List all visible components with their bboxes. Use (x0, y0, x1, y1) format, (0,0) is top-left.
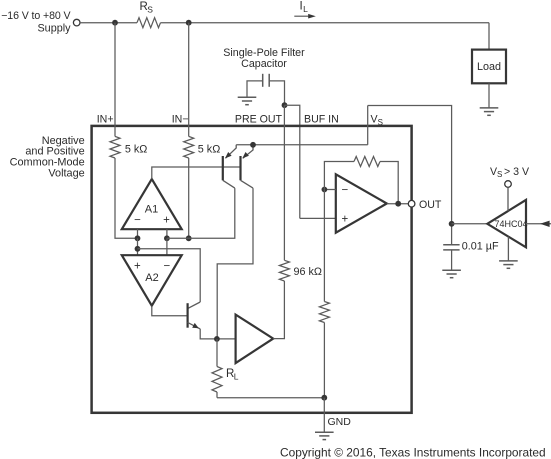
svg-text:Supply: Supply (37, 22, 71, 34)
transistor Q1 (PNP) (222, 156, 224, 180)
wire load to ground (488, 83, 490, 108)
wire A1+ net to Q1 collector (167, 188, 235, 238)
wire Vcc stub (507, 187, 509, 211)
wire Q3 collector run (138, 249, 201, 302)
svg-text:OUT: OUT (419, 199, 442, 211)
wire BUF IN to op-amp + input (300, 217, 336, 219)
resistor feedback (354, 157, 380, 167)
node output (395, 201, 401, 207)
svg-text:IN−: IN− (172, 114, 189, 126)
svg-text:+: + (342, 214, 349, 226)
wire cap right to PRE OUT (269, 81, 284, 105)
svg-text:S: S (378, 118, 383, 127)
wire Q3 emitter diagonal (188, 322, 201, 329)
terminal OUT (408, 200, 415, 207)
wire GND stub (323, 398, 325, 433)
svg-text:S: S (497, 170, 502, 179)
terminal VS>3V (505, 181, 512, 188)
svg-text:S: S (147, 5, 153, 15)
wire A2 minus stub (166, 238, 168, 255)
wire Q2 collector run (217, 188, 253, 339)
node IN- top junction (186, 20, 192, 26)
wire supply to Rs (80, 22, 137, 24)
wire Rs to load corner (161, 22, 490, 24)
wire Q3 collector diagonal (188, 302, 201, 309)
svg-text:+: + (134, 261, 141, 273)
node VS bypass (449, 221, 455, 227)
wire inverter ground stub (507, 237, 509, 261)
wire op-amp output (387, 203, 409, 205)
ground GND pin (315, 431, 334, 433)
svg-text:A2: A2 (145, 272, 158, 284)
divider resistor line (323, 190, 325, 302)
svg-text:Copyright © 2016, Texas Instru: Copyright © 2016, Texas Instruments Inco… (280, 446, 546, 459)
ground filter cap (238, 96, 257, 98)
VS rail (368, 106, 452, 245)
ground under load (480, 107, 499, 109)
svg-text:−16 V to +80 V: −16 V to +80 V (1, 10, 71, 22)
capacitor C filter (262, 74, 264, 87)
svg-text:Voltage: Voltage (48, 167, 84, 179)
wire A2 plus stub (137, 238, 139, 255)
svg-text:A1: A1 (145, 204, 158, 216)
wire buffer out to 96k (273, 281, 284, 339)
wire Q2 emitter (243, 145, 253, 158)
wire IN+ line (114, 23, 116, 137)
wire 5k left down (115, 158, 138, 238)
svg-text:Capacitor: Capacitor (241, 58, 287, 70)
svg-text:> 3 V: > 3 V (504, 166, 530, 178)
node A1+ (164, 235, 170, 241)
svg-text:96 kΩ: 96 kΩ (294, 266, 322, 278)
node buffer input junction (214, 336, 220, 342)
resistor 5k left (110, 136, 120, 158)
wire Q2 collector diagonal (241, 180, 254, 188)
svg-text:L: L (234, 371, 239, 381)
node A2+/Q3 collector (135, 246, 141, 252)
op-amp A2 (122, 255, 182, 306)
wire A2 output to Q3 base (152, 306, 188, 316)
op-amp A1 (122, 179, 182, 229)
wire tie jog to BUF IN (285, 105, 300, 218)
feedback loop (324, 162, 354, 190)
wire A1 plus stub (166, 229, 168, 238)
wire inverter input (526, 223, 551, 225)
current IL arrow (294, 15, 310, 17)
svg-text:5 kΩ: 5 kΩ (125, 143, 147, 155)
resistor RS (137, 18, 161, 28)
svg-text:BUF IN: BUF IN (304, 114, 339, 126)
svg-text:0.01 µF: 0.01 µF (462, 240, 499, 252)
wire RL to GND rail (217, 397, 324, 399)
op-amp U1 output stage (336, 174, 387, 232)
svg-text:−: − (164, 261, 171, 273)
inverter 74HC04 (487, 200, 526, 247)
resistor RL (216, 339, 218, 367)
svg-text:+: + (163, 215, 170, 227)
transistor Q2 (PNP) (239, 156, 241, 180)
node PRE OUT / BUF IN tie (282, 102, 288, 108)
svg-text:GND: GND (328, 416, 352, 428)
buffer amplifier (236, 315, 274, 364)
wire Q1 collector diagonal (223, 180, 235, 188)
wire Q3 emitter down (200, 329, 235, 339)
wire VS to inverter (452, 223, 488, 225)
node IN+ top junction (112, 20, 118, 26)
wire cap to ground (451, 250, 453, 270)
resistor 5k right (184, 136, 194, 158)
svg-text:−: − (134, 215, 141, 227)
ground inverter (499, 260, 518, 262)
capacitor 0.01uF (443, 244, 459, 246)
wire minus input (324, 189, 335, 191)
transistor Q3 (NPN) (187, 303, 189, 328)
node IN- net (186, 235, 192, 241)
svg-text:L: L (303, 4, 308, 14)
wire Q1 emitter (226, 145, 237, 158)
wire cap left to ground (247, 81, 263, 97)
svg-text:74HC04: 74HC04 (494, 219, 527, 229)
svg-text:Load: Load (477, 61, 501, 73)
emitter supply rail (236, 144, 368, 146)
svg-text:PRE OUT: PRE OUT (235, 114, 283, 126)
node A1- (135, 235, 141, 241)
load box (472, 50, 506, 84)
svg-text:5 kΩ: 5 kΩ (198, 143, 220, 155)
node emitter rail (250, 142, 256, 148)
node GND rail (321, 395, 327, 401)
wire 96k to PRE OUT (283, 105, 285, 260)
supply terminal (73, 19, 80, 26)
svg-text:−: − (342, 185, 349, 197)
IC boundary box (92, 126, 412, 413)
wire VS pin (367, 106, 369, 145)
wire IN- line (188, 23, 190, 137)
wire A1 output to base rail (152, 167, 241, 179)
wire feedback right (380, 162, 398, 204)
wire to load (488, 23, 490, 50)
svg-text:IN+: IN+ (97, 114, 114, 126)
ground bypass cap (442, 269, 461, 271)
wire 5k right down (188, 158, 190, 238)
node minus input (322, 187, 328, 193)
resistor 96k (279, 260, 289, 281)
wire A1 minus stub (137, 229, 139, 238)
